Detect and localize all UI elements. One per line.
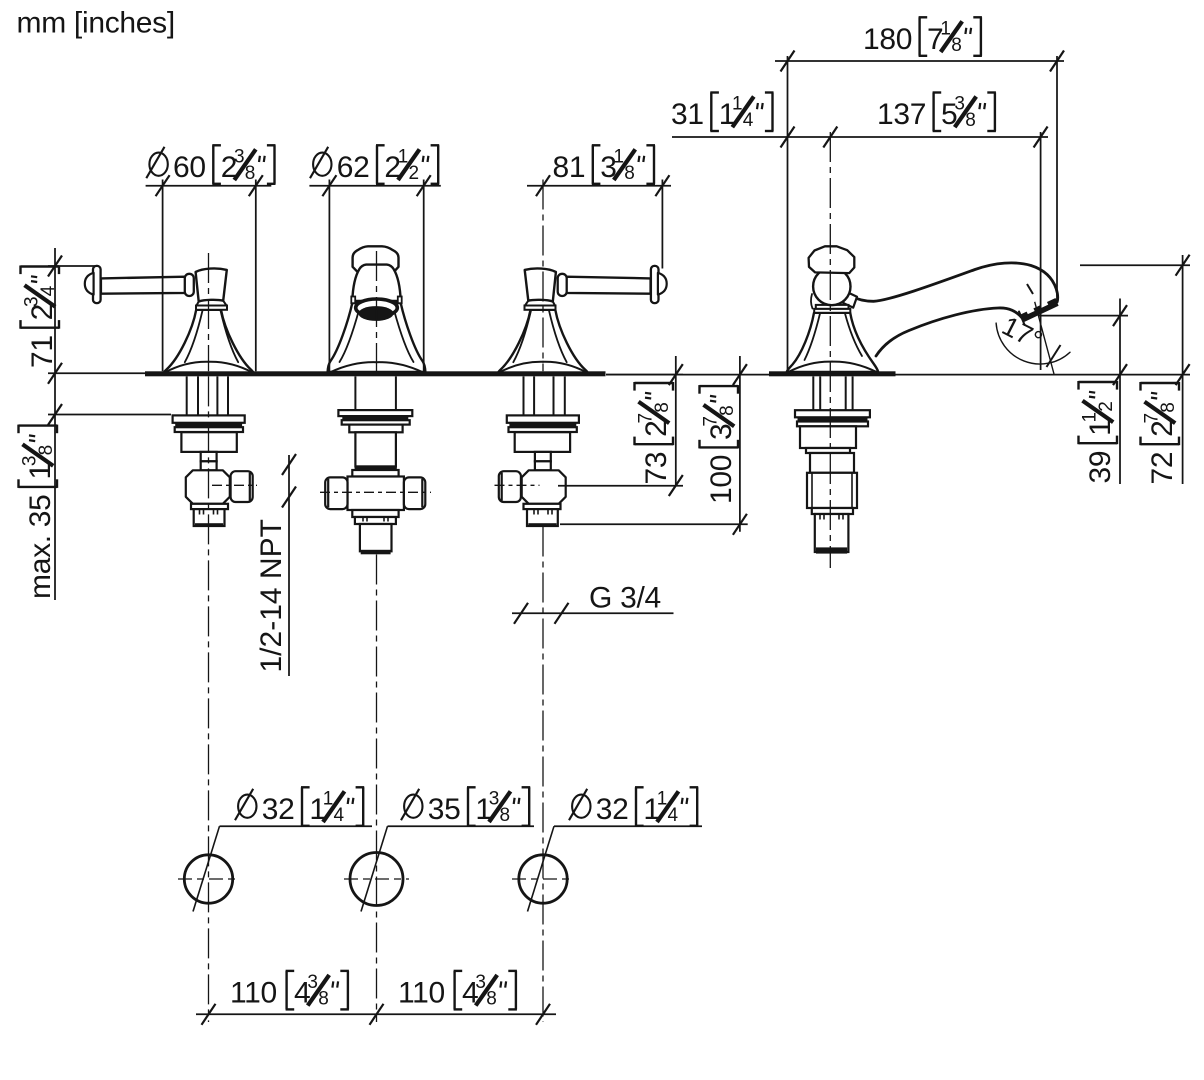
svg-text:39: 39 [1084, 451, 1117, 484]
svg-text:G 3/4: G 3/4 [589, 581, 661, 614]
svg-text:8: 8 [36, 445, 57, 456]
svg-text:8: 8 [624, 163, 635, 184]
svg-text:81: 81 [553, 151, 586, 184]
svg-text:4: 4 [38, 285, 59, 296]
svg-text:73: 73 [640, 452, 673, 485]
svg-text:110: 110 [230, 976, 277, 1009]
svg-text:mm [inches]: mm [inches] [17, 6, 175, 39]
svg-text:31: 31 [671, 98, 704, 131]
svg-text:180: 180 [863, 23, 912, 56]
svg-text:100: 100 [705, 455, 738, 504]
svg-text:8: 8 [500, 805, 511, 826]
svg-text:4: 4 [743, 110, 754, 131]
svg-text:4: 4 [668, 805, 679, 826]
svg-text:72: 72 [1146, 452, 1179, 485]
svg-text:62: 62 [337, 151, 370, 184]
svg-text:110: 110 [398, 976, 445, 1009]
svg-text:137: 137 [877, 98, 926, 131]
svg-text:8: 8 [652, 402, 673, 413]
svg-text:60: 60 [173, 151, 206, 184]
svg-text:32: 32 [262, 793, 295, 826]
svg-text:max.: max. [24, 535, 57, 599]
svg-text:71: 71 [26, 335, 59, 368]
svg-text:8: 8 [1158, 402, 1179, 413]
svg-text:1/2-14 NPT: 1/2-14 NPT [255, 519, 288, 672]
svg-text:2: 2 [409, 163, 420, 184]
svg-text:8: 8 [486, 988, 497, 1009]
svg-text:8: 8 [965, 110, 976, 131]
svg-text:35: 35 [24, 494, 57, 527]
svg-text:8: 8 [318, 988, 329, 1009]
svg-text:35: 35 [428, 793, 461, 826]
svg-text:4: 4 [334, 805, 345, 826]
svg-text:8: 8 [717, 405, 738, 416]
svg-text:8: 8 [951, 35, 962, 56]
svg-text:8: 8 [245, 163, 256, 184]
svg-text:2: 2 [1096, 401, 1117, 412]
svg-text:32: 32 [596, 793, 629, 826]
